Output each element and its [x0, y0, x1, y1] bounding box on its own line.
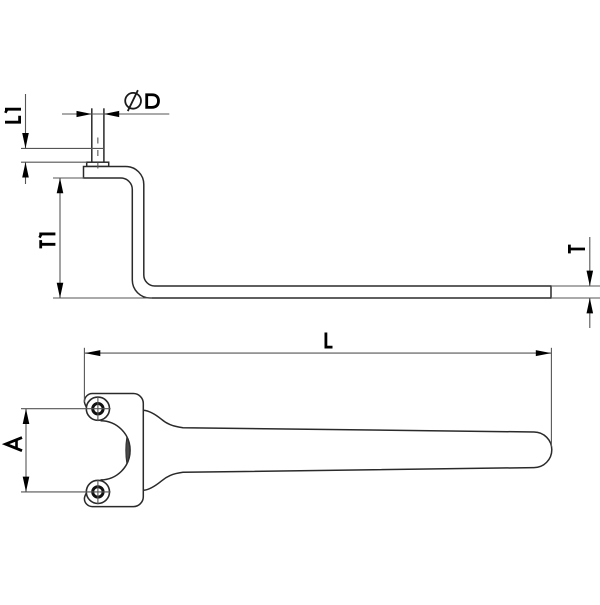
L dim line: [85, 352, 551, 354]
T1 extension line bottom: [53, 297, 152, 299]
handle with neck (plan): [143, 410, 552, 490]
pin hole top (thick inner circle): [93, 404, 103, 414]
L1 extension line upper (crosses pin): [21, 147, 104, 149]
L extension line left: [83, 348, 85, 402]
boss circle bottom (outer): [86, 480, 109, 503]
bent strip body (Z profile): [84, 167, 552, 299]
L arrow left: [85, 350, 100, 356]
T dim line lower stub: [589, 298, 591, 328]
dim line phi-D (y=114): [62, 113, 169, 115]
head plate outline: [84, 394, 143, 507]
T arrow down: [587, 271, 594, 286]
A arrow down: [23, 477, 30, 492]
label T (drawn glyph, rotated): [568, 245, 585, 254]
T1 arrow down: [57, 283, 64, 298]
L1 dim line upper stub: [25, 94, 27, 148]
fork notch (U cavity): [101, 421, 131, 480]
crosshair bottom boss horizontal / A ext bottom: [21, 491, 111, 493]
T1 dim line: [59, 178, 61, 298]
T extension line top: [552, 285, 600, 287]
label D (drawn glyph): [145, 93, 158, 108]
arrow phi-D left: [77, 111, 92, 117]
label L (drawn glyph): [325, 333, 333, 349]
T1 arrow up: [57, 178, 64, 193]
T1 extension line top: [53, 177, 84, 179]
diameter symbol slash: [128, 90, 138, 111]
notch seat crescent (lens between arcs): [126, 437, 130, 463]
T dim line upper stub: [589, 237, 591, 286]
label L1 (drawn glyphs, rotated): [5, 109, 21, 123]
label T1 (drawn glyphs, rotated): [39, 234, 55, 248]
crosshair bottom boss vertical: [97, 480, 99, 505]
pin side left: [91, 108, 93, 162]
A arrow up: [23, 409, 30, 424]
L1 arrow down: [22, 133, 29, 148]
collar / flange under pin: [87, 162, 109, 166]
A dim line: [25, 409, 27, 492]
pin centerline (dashed): [97, 138, 99, 174]
arrow phi-D right: [104, 111, 119, 117]
label A (drawn glyph, rotated): [6, 438, 22, 451]
pin side right: [103, 108, 105, 162]
L arrow right: [536, 350, 551, 356]
crosshair top boss horizontal / A ext top: [21, 408, 111, 410]
L1 extension line lower: [21, 161, 87, 163]
T extension line bottom: [552, 297, 600, 299]
crosshair top boss vertical: [97, 396, 99, 421]
L extension line right: [550, 348, 552, 447]
diameter symbol circle: [125, 93, 141, 109]
pin hole bottom (thick inner circle): [93, 487, 103, 497]
L1 arrow up: [22, 162, 29, 177]
L1 dim line lower stub: [25, 162, 27, 184]
T arrow up: [587, 298, 594, 313]
boss circle top (outer): [86, 397, 109, 420]
